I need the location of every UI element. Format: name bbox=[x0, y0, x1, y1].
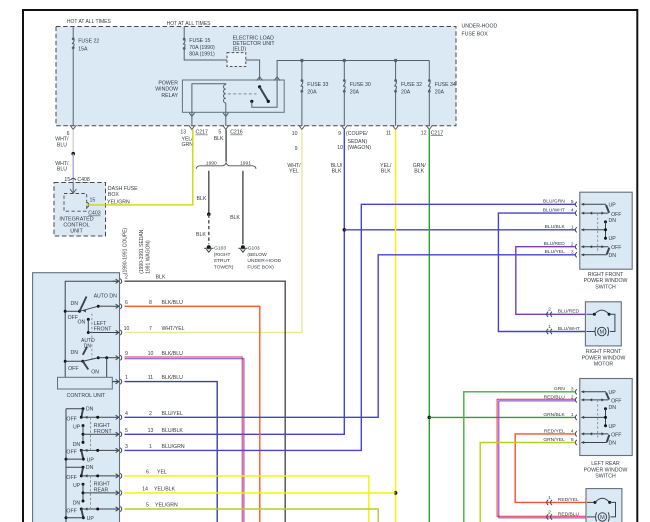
svg-text:BLU/GRN: BLU/GRN bbox=[162, 444, 185, 450]
svg-text:RED/BLU: RED/BLU bbox=[558, 511, 580, 517]
svg-text:DN: DN bbox=[71, 350, 79, 356]
wire BLK 1990 branch bbox=[208, 171, 210, 215]
switch row pin A (up contact) bbox=[581, 203, 606, 205]
svg-text:POWER WINDOW: POWER WINDOW bbox=[584, 278, 628, 284]
fuse 30 20A bbox=[343, 61, 345, 81]
connector pin 3 GRN bbox=[575, 389, 576, 394]
svg-text:HOT AT ALL TIMES: HOT AT ALL TIMES bbox=[167, 21, 212, 27]
svg-text:BLK/BLU: BLK/BLU bbox=[162, 351, 184, 357]
svg-text:BLU: BLU bbox=[57, 167, 67, 173]
left front contact bar bbox=[87, 318, 90, 321]
svg-text:BLU/RED: BLU/RED bbox=[558, 309, 580, 315]
svg-text:YEL/BLK: YEL/BLK bbox=[154, 486, 176, 492]
svg-text:SWITCH: SWITCH bbox=[595, 474, 616, 480]
relay coil circuit bbox=[192, 84, 226, 113]
svg-text:OFF: OFF bbox=[66, 475, 76, 481]
svg-text:POWER: POWER bbox=[158, 80, 178, 86]
row pin B (common) bbox=[581, 399, 608, 401]
svg-text:MOTOR: MOTOR bbox=[594, 362, 613, 368]
blade dn-off bbox=[81, 409, 83, 417]
svg-text:UNIT: UNIT bbox=[70, 228, 83, 234]
right front power window motor bbox=[585, 302, 621, 346]
svg-text:OFF: OFF bbox=[611, 212, 621, 218]
wire BLU/WHT switch pin4 to motor pin1 bbox=[498, 213, 585, 331]
svg-text:15: 15 bbox=[90, 197, 96, 203]
svg-text:3: 3 bbox=[125, 444, 128, 450]
svg-text:FUSE 30: FUSE 30 bbox=[350, 82, 371, 88]
svg-text:UNDER-HOOD: UNDER-HOOD bbox=[462, 24, 498, 30]
wire BLU/RED switch pin2 to motor pin2 bbox=[516, 247, 586, 315]
svg-text:BLU/YEL: BLU/YEL bbox=[545, 249, 565, 255]
svg-text:1: 1 bbox=[571, 412, 574, 418]
svg-text:9: 9 bbox=[295, 146, 298, 152]
svg-text:15A: 15A bbox=[78, 46, 88, 52]
wire relay to fuse bus bbox=[277, 61, 429, 80]
fuse 33 20A bbox=[301, 61, 303, 81]
svg-text:OFF: OFF bbox=[66, 450, 76, 456]
wire GRN/BLK (fuse34, pin 12 C217) bbox=[428, 130, 430, 522]
svg-text:ON: ON bbox=[78, 319, 86, 325]
svg-text:ON: ON bbox=[91, 369, 99, 375]
connector pin 4 RED/YEL bbox=[575, 431, 576, 436]
svg-text:2: 2 bbox=[125, 275, 128, 281]
row pin B (common) bbox=[581, 212, 608, 214]
svg-text:M: M bbox=[599, 330, 604, 336]
connector motor pin 1 bbox=[547, 500, 549, 505]
svg-text:C217: C217 bbox=[196, 130, 209, 136]
row pin C (bar middle) bbox=[581, 229, 605, 231]
motor brush arc bbox=[586, 313, 594, 315]
connector pin 5 GRN/YEL bbox=[575, 440, 576, 445]
svg-text:70A (1990): 70A (1990) bbox=[189, 45, 215, 51]
svg-text:BLK: BLK bbox=[332, 169, 342, 175]
svg-text:1991 WAGON): 1991 WAGON) bbox=[146, 240, 152, 274]
svg-text:OFF: OFF bbox=[611, 399, 621, 405]
svg-text:7: 7 bbox=[149, 326, 152, 332]
svg-text:DASH FUSE: DASH FUSE bbox=[108, 186, 138, 192]
node fuse bus taps bbox=[300, 59, 303, 62]
svg-text:2: 2 bbox=[149, 411, 152, 417]
svg-text:UNDER-HOOD: UNDER-HOOD bbox=[247, 258, 281, 264]
control unit pin 11 stub bbox=[112, 381, 118, 383]
svg-text:FUSE 22: FUSE 22 bbox=[78, 39, 99, 45]
svg-text:8: 8 bbox=[149, 300, 152, 306]
svg-text:OFF: OFF bbox=[611, 432, 621, 438]
svg-text:CONTROL UNIT: CONTROL UNIT bbox=[67, 393, 107, 399]
connector pin 4 BLU/WHT bbox=[575, 211, 576, 216]
svg-text:UP: UP bbox=[609, 202, 617, 208]
svg-text:5: 5 bbox=[125, 428, 128, 434]
svg-text:BLK: BLK bbox=[214, 136, 224, 142]
wire RED/BLU switch pin2 to motor pin2 bbox=[497, 399, 586, 516]
wire BLK 1991 branch bbox=[242, 171, 244, 245]
svg-text:POWER WINDOW: POWER WINDOW bbox=[582, 355, 626, 361]
motor symbol M bbox=[587, 516, 595, 518]
blade up-off bbox=[606, 393, 609, 400]
svg-text:GRN/BLK: GRN/BLK bbox=[543, 412, 565, 418]
fuse 32 20A bbox=[395, 61, 397, 81]
svg-text:OFF: OFF bbox=[68, 366, 78, 372]
svg-text:BLU/BLK: BLU/BLK bbox=[545, 224, 566, 230]
left rear power window motor bbox=[586, 489, 622, 522]
svg-text:5: 5 bbox=[571, 199, 574, 205]
svg-text:BOX: BOX bbox=[108, 192, 119, 198]
svg-text:4: 4 bbox=[125, 411, 128, 417]
svg-text:SWITCH: SWITCH bbox=[595, 284, 616, 290]
svg-text:RED/YEL: RED/YEL bbox=[558, 497, 579, 503]
svg-text:1: 1 bbox=[149, 444, 152, 450]
ground G103 (right strut tower) bbox=[207, 245, 211, 249]
control unit block bbox=[58, 377, 113, 389]
svg-text:(WAGON): (WAGON) bbox=[348, 145, 372, 151]
svg-text:(COUPE/: (COUPE/ bbox=[346, 131, 368, 137]
wire WHT (fuse22 exit, pin 6) bbox=[72, 130, 74, 154]
relay terminal arrows (bottom) bbox=[191, 112, 193, 126]
svg-text:9: 9 bbox=[338, 131, 341, 137]
svg-text:FRONT: FRONT bbox=[94, 327, 113, 333]
svg-text:12: 12 bbox=[421, 130, 427, 136]
under-hood fuse box bbox=[56, 27, 456, 126]
up contact to bus bbox=[82, 516, 85, 519]
wire BLK relay to ground split bbox=[225, 130, 227, 162]
svg-text:C216: C216 bbox=[230, 130, 243, 136]
svg-text:UP: UP bbox=[73, 483, 81, 489]
svg-text:RIGHT FRONT: RIGHT FRONT bbox=[586, 349, 622, 355]
svg-text:FUSE 32: FUSE 32 bbox=[401, 82, 422, 88]
blade dn-off bbox=[607, 248, 610, 255]
svg-text:13: 13 bbox=[180, 130, 186, 136]
svg-text:13: 13 bbox=[148, 428, 154, 434]
wire GRN to left rear switch pin 3 bbox=[464, 392, 575, 522]
svg-text:FRONT: FRONT bbox=[94, 429, 113, 435]
svg-text:1: 1 bbox=[571, 224, 574, 230]
svg-text:BLU/YEL: BLU/YEL bbox=[162, 411, 183, 417]
connector motor pin 1 bbox=[547, 329, 549, 334]
right front power window switch bbox=[580, 192, 632, 269]
svg-text:UP: UP bbox=[73, 424, 81, 430]
svg-text:DN: DN bbox=[609, 441, 617, 447]
switch on/off (control unit) bbox=[65, 360, 83, 362]
wire WHT/YEL (fuse33, pins 10/9) bbox=[125, 130, 302, 333]
wire BLU/BLK (fuse30) to master pin 13 bbox=[125, 130, 345, 435]
svg-text:BLU/BLK: BLU/BLK bbox=[162, 428, 184, 434]
fuse 34 20A bbox=[428, 61, 430, 81]
relay terminal arrows (top) bbox=[257, 77, 263, 81]
blade dn-off bbox=[81, 468, 83, 476]
svg-text:FUSE 33: FUSE 33 bbox=[307, 82, 328, 88]
up contact to bus bbox=[82, 458, 85, 461]
node GRN/BLK junction to left rear switch pin 1 bbox=[428, 416, 432, 420]
row pin D (common 2) bbox=[581, 433, 608, 435]
svg-text:OFF: OFF bbox=[66, 416, 76, 422]
svg-text:BLK/BLU: BLK/BLU bbox=[162, 300, 184, 306]
svg-text:BLU/GRN: BLU/GRN bbox=[543, 199, 565, 205]
svg-text:UP: UP bbox=[87, 457, 95, 463]
svg-text:BLK: BLK bbox=[381, 169, 391, 175]
svg-text:GRN: GRN bbox=[182, 142, 194, 148]
svg-text:BLK: BLK bbox=[196, 196, 206, 202]
svg-text:FUSE 34: FUSE 34 bbox=[435, 82, 456, 88]
wire into integrated control unit bbox=[72, 183, 74, 194]
power window relay bbox=[182, 80, 284, 112]
svg-text:DN: DN bbox=[609, 218, 617, 224]
svg-text:9: 9 bbox=[125, 351, 128, 357]
connector motor pin 2 bbox=[547, 312, 549, 317]
svg-text:(1990-1991 SEDAN,: (1990-1991 SEDAN, bbox=[139, 228, 145, 274]
relay switch contact bbox=[258, 85, 261, 88]
svg-text:OFF: OFF bbox=[611, 245, 621, 251]
svg-text:BLK: BLK bbox=[196, 232, 206, 238]
svg-text:DN: DN bbox=[73, 501, 81, 507]
switch row pin A (up contact) bbox=[581, 391, 606, 393]
svg-text:1: 1 bbox=[548, 324, 551, 330]
electric load detector unit (ELD) bbox=[227, 53, 246, 67]
master switch bus (lower) bbox=[65, 409, 67, 522]
svg-text:BLK: BLK bbox=[156, 275, 166, 281]
svg-text:10: 10 bbox=[292, 131, 298, 137]
ground G103 (below under-hood fuse box) bbox=[241, 245, 245, 249]
wire YEL/BLK (fuse32, pin 11) bbox=[395, 130, 397, 522]
wire fuse15 to ELD bbox=[184, 48, 227, 60]
mechanical link (dashed) bbox=[597, 213, 599, 251]
svg-text:M: M bbox=[600, 515, 605, 521]
svg-text:11: 11 bbox=[386, 130, 391, 136]
blade dn-off bbox=[607, 435, 610, 442]
row pin E (dn contact) bbox=[581, 442, 607, 444]
svg-text:20A: 20A bbox=[350, 89, 360, 95]
svg-text:RELAY: RELAY bbox=[161, 93, 178, 99]
svg-text:20A: 20A bbox=[435, 89, 445, 95]
switch dn blade bbox=[83, 347, 87, 355]
svg-text:2: 2 bbox=[548, 509, 551, 515]
switch auto-dn (left front) bbox=[65, 310, 79, 312]
svg-text:STRUT: STRUT bbox=[214, 258, 230, 264]
svg-text:BLK: BLK bbox=[414, 169, 424, 175]
svg-text:HOT AT ALL TIMES: HOT AT ALL TIMES bbox=[67, 19, 112, 25]
svg-text:UP: UP bbox=[609, 236, 617, 242]
svg-text:5: 5 bbox=[218, 130, 221, 136]
svg-text:YEL/GRN: YEL/GRN bbox=[107, 199, 130, 205]
wire YEL/GRN relay to ICU bbox=[87, 130, 193, 205]
svg-text:5: 5 bbox=[146, 503, 149, 509]
svg-text:G103: G103 bbox=[214, 246, 226, 252]
mechanical link (dashed) bbox=[90, 417, 92, 449]
blade up-off bbox=[606, 205, 609, 213]
integrated control unit bbox=[64, 194, 87, 212]
svg-text:1: 1 bbox=[548, 495, 551, 501]
svg-text:10: 10 bbox=[148, 351, 154, 357]
fuse 22 bbox=[72, 27, 74, 39]
svg-text:YEL/GRN: YEL/GRN bbox=[155, 503, 178, 509]
connector motor pin 2 bbox=[547, 514, 549, 519]
switch group bus feed bbox=[66, 408, 83, 410]
svg-text:RIGHT FRONT: RIGHT FRONT bbox=[588, 272, 624, 278]
svg-text:(ELD): (ELD) bbox=[233, 47, 247, 53]
mechanical link (dashed) bbox=[90, 476, 92, 508]
wire ELD to relay contact bbox=[246, 60, 260, 80]
relay coil link (dashed) bbox=[228, 93, 257, 95]
connector pin 2 BLU/RED bbox=[575, 244, 576, 249]
connector pin 3 BLU/YEL bbox=[575, 252, 576, 257]
dash fuse box bbox=[54, 183, 106, 237]
svg-text:1: 1 bbox=[125, 375, 128, 381]
connector pin 1 BLU/BLK bbox=[575, 227, 576, 232]
svg-text:DN: DN bbox=[609, 405, 617, 411]
wire RED/YEL switch pin4 to motor pin1 bbox=[515, 434, 586, 503]
svg-text:BLU: BLU bbox=[57, 142, 67, 148]
svg-text:AUTO DN: AUTO DN bbox=[94, 294, 118, 300]
svg-text:FUSE BOX): FUSE BOX) bbox=[247, 264, 274, 270]
motor symbol M bbox=[586, 331, 594, 333]
row pin D (common 2) bbox=[581, 246, 608, 248]
node YEL/BLK junction to master pin 14 bbox=[394, 491, 398, 495]
svg-text:6: 6 bbox=[146, 469, 149, 475]
row pin E (dn contact) bbox=[581, 254, 607, 256]
svg-text:REAR: REAR bbox=[94, 487, 109, 493]
motor brush arc bbox=[587, 501, 595, 503]
svg-text:BLU/WHT: BLU/WHT bbox=[558, 326, 580, 332]
svg-text:14: 14 bbox=[142, 486, 148, 492]
svg-text:POWER WINDOW: POWER WINDOW bbox=[584, 467, 628, 473]
svg-text:10: 10 bbox=[124, 326, 130, 332]
svg-text:UP: UP bbox=[609, 390, 617, 396]
svg-text:FUSE BOX: FUSE BOX bbox=[462, 32, 489, 38]
mechanical link (dashed) bbox=[597, 400, 599, 439]
svg-text:FUSE 15: FUSE 15 bbox=[189, 38, 210, 44]
node bus taps bbox=[64, 310, 67, 313]
svg-text:20A: 20A bbox=[401, 89, 411, 95]
power window master switch box bbox=[33, 273, 120, 522]
connector pin 1 GRN/BLK bbox=[575, 415, 576, 420]
svg-text:DN: DN bbox=[73, 442, 81, 448]
svg-text:LEFT REAR: LEFT REAR bbox=[591, 461, 620, 467]
svg-text:YEL: YEL bbox=[289, 169, 299, 175]
svg-text:DN: DN bbox=[609, 253, 617, 259]
left rear power window switch bbox=[580, 379, 632, 456]
svg-text:DN: DN bbox=[86, 406, 94, 412]
svg-text:WINDOW: WINDOW bbox=[155, 87, 178, 93]
svg-text:WHT/YEL: WHT/YEL bbox=[162, 326, 185, 332]
svg-text:(RIGHT: (RIGHT bbox=[214, 252, 231, 258]
svg-text:C217: C217 bbox=[431, 130, 444, 136]
svg-text:6: 6 bbox=[125, 300, 128, 306]
connector pin 5 BLU/GRN bbox=[575, 202, 576, 207]
svg-text:BLK: BLK bbox=[230, 215, 240, 221]
svg-text:2: 2 bbox=[548, 307, 551, 313]
svg-text:(1990-1991 COUPE): (1990-1991 COUPE) bbox=[123, 227, 129, 274]
svg-text:UP: UP bbox=[87, 516, 95, 522]
mechanical link (dashed) bbox=[91, 314, 93, 360]
svg-text:DN: DN bbox=[71, 301, 79, 307]
control unit internal bus bbox=[65, 281, 117, 377]
wire WHT/BLU to dash fuse box bbox=[72, 154, 74, 183]
node BLU/BLK junction to right front switch pin 1 bbox=[343, 228, 347, 232]
wire fuse22 to C408 exit bbox=[72, 48, 74, 126]
switch group bus feed bbox=[66, 466, 83, 468]
svg-text:10: 10 bbox=[337, 145, 343, 151]
svg-text:11: 11 bbox=[148, 375, 153, 381]
fuse 15 bbox=[183, 27, 185, 40]
svg-text:DN: DN bbox=[86, 465, 94, 471]
svg-text:G103: G103 bbox=[248, 246, 260, 252]
svg-text:OFF: OFF bbox=[66, 508, 76, 514]
svg-text:TOWER): TOWER) bbox=[214, 264, 234, 270]
connector pin 2 RED/BLU bbox=[575, 397, 576, 402]
svg-text:BLK/BLU: BLK/BLU bbox=[162, 375, 184, 381]
splice node on WHT/BLU bbox=[71, 152, 75, 156]
svg-text:20A: 20A bbox=[307, 89, 317, 95]
svg-text:UP: UP bbox=[609, 424, 617, 430]
svg-text:80A (1991): 80A (1991) bbox=[189, 52, 215, 58]
svg-text:OFF: OFF bbox=[68, 315, 78, 321]
svg-text:(BELOW: (BELOW bbox=[247, 252, 267, 258]
row pin C (bar middle) bbox=[581, 416, 605, 418]
svg-text:3: 3 bbox=[571, 249, 574, 255]
svg-text:YEL: YEL bbox=[157, 469, 167, 475]
wire GRN/YEL to left rear switch pin 5 bbox=[480, 443, 575, 522]
